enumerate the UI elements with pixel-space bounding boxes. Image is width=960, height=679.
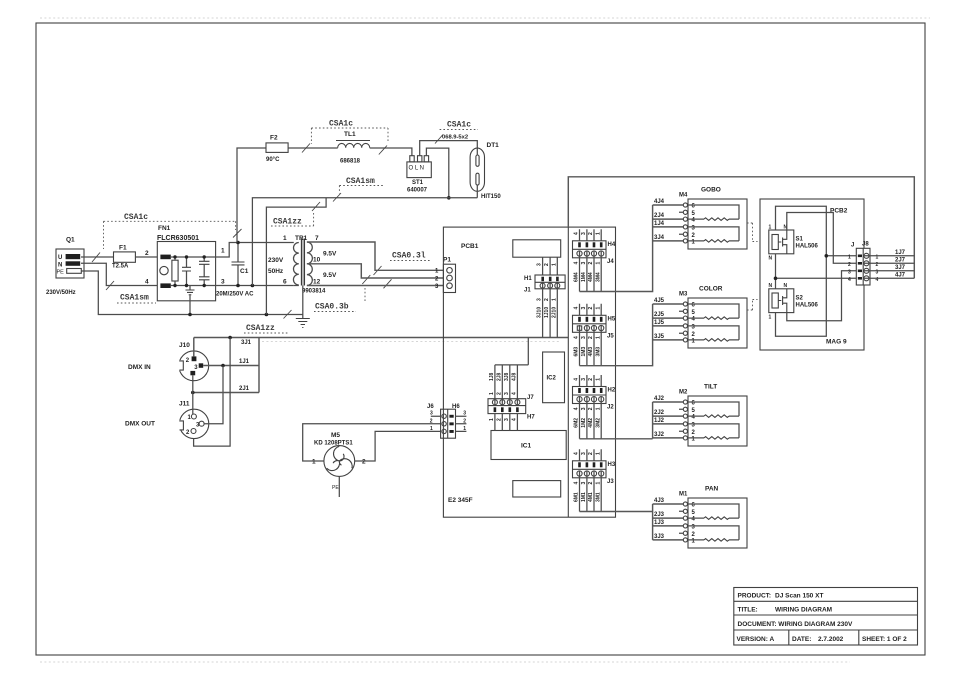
wire net 2J1 (193, 392, 260, 394)
fan motor M5 (312, 432, 366, 476)
svg-text:F2: F2 (270, 135, 278, 142)
svg-text:230V: 230V (268, 257, 284, 264)
svg-text:CSA0.3b: CSA0.3b (315, 303, 349, 312)
svg-text:J8: J8 (862, 242, 869, 248)
junction dots on ground rail (265, 313, 269, 317)
svg-text:C1: C1 (240, 268, 249, 275)
svg-text:6M3: 6M3 (574, 347, 580, 357)
svg-text:1: 1 (595, 307, 601, 310)
svg-text:PCB1: PCB1 (461, 243, 479, 250)
svg-text:1: 1 (595, 336, 601, 339)
svg-text:1J8: 1J8 (489, 372, 495, 381)
svg-text:3: 3 (581, 232, 587, 235)
svg-text:KD 1208PTS1: KD 1208PTS1 (314, 441, 353, 447)
svg-text:FN1: FN1 (158, 225, 171, 232)
svg-text:2J10: 2J10 (551, 307, 557, 318)
svg-text:M5: M5 (331, 432, 340, 439)
CSA1sm label mid (333, 177, 384, 202)
svg-text:1: 1 (283, 235, 287, 242)
svg-text:1: 1 (595, 232, 601, 235)
svg-text:3M3: 3M3 (595, 347, 601, 357)
svg-text:3J8: 3J8 (504, 372, 510, 381)
svg-text:1M4: 1M4 (581, 272, 587, 282)
FN1 junction dots (173, 255, 176, 258)
svg-text:H1: H1 (524, 276, 532, 282)
svg-text:J6: J6 (427, 404, 434, 410)
CSA1sm label bottom left (106, 281, 156, 303)
wire ST1 L up to DT1 top (420, 141, 478, 156)
svg-text:3M2: 3M2 (595, 418, 601, 428)
svg-text:1J10: 1J10 (544, 307, 550, 318)
svg-text:1: 1 (595, 262, 601, 265)
svg-text:2.7.2002: 2.7.2002 (818, 636, 844, 643)
svg-text:PCB2: PCB2 (830, 208, 848, 215)
svg-text:4J2: 4J2 (654, 396, 665, 402)
svg-text:CSA1zz: CSA1zz (246, 324, 275, 333)
svg-text:3: 3 (504, 392, 510, 395)
connector H1 J1 (524, 257, 565, 337)
svg-text:N: N (784, 283, 788, 289)
svg-text:H5: H5 (608, 317, 616, 323)
svg-text:TILT: TILT (704, 384, 717, 391)
FN1 ground symbol (189, 286, 191, 291)
wire TR1 ground (302, 286, 304, 319)
svg-text:2J1: 2J1 (239, 386, 250, 392)
wire J10 pin1 to J11 pin1 (192, 375, 194, 414)
svg-text:SHEET: 1 OF 2: SHEET: 1 OF 2 (862, 636, 907, 643)
svg-text:PE: PE (332, 485, 339, 491)
connector H2 J2 (573, 375, 616, 439)
svg-text:2: 2 (588, 378, 594, 381)
svg-text:9.5V: 9.5V (323, 272, 337, 279)
svg-text:50Hz: 50Hz (268, 268, 284, 275)
CSA1zz label upper (271, 202, 320, 227)
svg-text:CSA1c: CSA1c (447, 121, 471, 130)
svg-text:2J7: 2J7 (895, 257, 906, 263)
svg-text:J11: J11 (179, 401, 190, 408)
svg-text:2: 2 (544, 298, 550, 301)
svg-text:3: 3 (537, 263, 543, 266)
wire N: Q1 to FN1 pin4 (81, 263, 157, 285)
fuse F1 (112, 245, 135, 270)
svg-text:M1: M1 (679, 492, 688, 498)
wire TR1 pin10 to P1 pin2 (307, 264, 446, 278)
svg-text:2: 2 (588, 307, 594, 310)
svg-text:9.5V: 9.5V (323, 251, 337, 258)
svg-text:3: 3 (581, 378, 587, 381)
svg-text:3J5: 3J5 (654, 334, 665, 340)
wire net 4J7 (864, 277, 915, 279)
svg-text:COLOR: COLOR (699, 286, 723, 293)
svg-text:1: 1 (769, 315, 772, 321)
svg-text:3: 3 (504, 418, 510, 421)
svg-text:1: 1 (489, 392, 495, 395)
svg-text:2J5: 2J5 (654, 312, 665, 318)
svg-text:3J3: 3J3 (654, 534, 665, 540)
svg-text:M4: M4 (679, 193, 688, 199)
svg-text:2J3: 2J3 (654, 512, 665, 518)
svg-text:J: J (851, 243, 854, 249)
svg-text:3: 3 (581, 407, 587, 410)
wire ST1 N to lamp return (426, 148, 448, 198)
wire J8 pin3 from S2 (787, 271, 857, 321)
svg-text:4: 4 (848, 277, 851, 283)
svg-text:3M4: 3M4 (595, 272, 601, 282)
wire PE: Q1 down to ground rail (81, 271, 303, 315)
svg-text:N: N (769, 256, 773, 262)
svg-text:1: 1 (595, 407, 601, 410)
svg-text:2: 2 (588, 232, 594, 235)
svg-text:2: 2 (463, 418, 466, 424)
svg-text:1: 1 (489, 418, 495, 421)
svg-text:2: 2 (848, 262, 851, 268)
svg-text:3: 3 (430, 411, 433, 417)
wire F1 to FN1 pin2 (135, 256, 157, 258)
svg-text:1J2: 1J2 (654, 418, 665, 424)
svg-text:1J1: 1J1 (239, 359, 250, 365)
svg-text:12: 12 (313, 279, 321, 286)
svg-text:GOBO: GOBO (701, 187, 721, 194)
CSA1c label over igniter (435, 121, 478, 144)
IC2 (543, 352, 565, 403)
CSA0.3b label (314, 275, 392, 312)
svg-text:4: 4 (145, 279, 149, 286)
wire feeder J4 to GOBO (580, 205, 684, 292)
FN1 inductor top (160, 255, 170, 260)
svg-text:TL1: TL1 (344, 131, 356, 138)
fuse F2 (266, 135, 288, 164)
wire return-to-PE link (266, 198, 326, 315)
svg-text:4: 4 (574, 232, 580, 235)
svg-text:FLCR630501: FLCR630501 (157, 235, 199, 242)
FN1 capacitor X (186, 257, 188, 286)
motor M1 PAN (654, 486, 747, 549)
wire lamp return to neutral rail (252, 198, 477, 286)
svg-text:P1: P1 (443, 257, 451, 264)
svg-text:230V/50Hz: 230V/50Hz (46, 290, 76, 296)
svg-text:WIRING DIAGRAM: WIRING DIAGRAM (775, 607, 832, 614)
sensor S2 (769, 283, 819, 321)
svg-text:IC1: IC1 (521, 443, 532, 450)
FN1 internal bottom wire (171, 285, 216, 287)
wire TR1 pin7 to P1 pin1 (307, 242, 446, 270)
pcb1 top inner rect (513, 240, 561, 257)
svg-text:2J4: 2J4 (654, 213, 665, 219)
motor M4 GOBO (654, 187, 747, 250)
svg-text:T2.5A: T2.5A (112, 264, 129, 270)
svg-text:E2 345F: E2 345F (448, 497, 473, 504)
dashed link COLOR to S2 (747, 300, 758, 311)
FN1 resistor (172, 260, 178, 281)
svg-text:3: 3 (581, 482, 587, 485)
FN1 inductor bottom (160, 283, 170, 288)
svg-text:3J7: 3J7 (895, 265, 906, 271)
svg-text:6M4: 6M4 (574, 272, 580, 282)
svg-text:10: 10 (313, 257, 321, 264)
svg-text:6M2: 6M2 (574, 418, 580, 428)
connector H5 J5 (573, 304, 616, 366)
svg-text:3J4: 3J4 (654, 235, 665, 241)
wire F2 to TL1 (288, 147, 338, 149)
svg-text:2: 2 (496, 392, 502, 395)
wire feeder J2 to TILT (580, 402, 684, 439)
svg-text:H7: H7 (527, 415, 535, 421)
wire J7 bus loop top (568, 177, 914, 278)
svg-text:HIT150: HIT150 (481, 194, 501, 200)
wire feeder J5 to COLOR (580, 304, 684, 366)
svg-text:2: 2 (145, 250, 149, 257)
wire M5 pin2 to J6 (355, 431, 441, 461)
svg-text:4M4: 4M4 (588, 272, 594, 282)
wire S1 to S2 link (775, 254, 777, 289)
svg-text:1J5: 1J5 (654, 320, 665, 326)
svg-text:90°C: 90°C (266, 157, 280, 163)
svg-text:3J10: 3J10 (537, 307, 543, 318)
svg-text:IC2: IC2 (547, 376, 557, 382)
svg-text:H2: H2 (608, 388, 616, 394)
svg-text:20M/250V AC: 20M/250V AC (216, 292, 254, 298)
pcb1 bottom inner rect (513, 481, 561, 497)
connector H3 J3 (573, 449, 616, 511)
svg-text:4: 4 (574, 407, 580, 410)
junction dot lamp return on neutral rail (251, 284, 255, 288)
svg-text:J4: J4 (607, 259, 614, 265)
FN1 choke circle (160, 266, 168, 274)
wire M5 pe stub (338, 476, 340, 497)
svg-text:640007: 640007 (407, 188, 428, 194)
svg-text:H3: H3 (608, 462, 616, 468)
svg-text:J1: J1 (524, 288, 531, 294)
wire FN1 pin3 neutral rail to TR1 pin6 (216, 285, 294, 287)
svg-text:686818: 686818 (340, 159, 361, 165)
svg-text:J7: J7 (527, 395, 534, 401)
ground symbol TR1 (296, 319, 310, 328)
inductor TL1 (336, 131, 370, 165)
wire U: Q1 to F1 (81, 256, 114, 258)
svg-text:J5: J5 (607, 334, 614, 340)
CSA1zz label lower (244, 310, 292, 333)
svg-text:4: 4 (574, 452, 580, 455)
svg-text:N: N (58, 262, 62, 268)
svg-text:PE: PE (57, 270, 65, 276)
svg-text:1: 1 (463, 426, 466, 432)
svg-text:PRODUCT:: PRODUCT: (738, 593, 772, 600)
wire net 1J7 (864, 255, 915, 257)
svg-text:6: 6 (283, 279, 287, 286)
svg-text:N: N (769, 283, 773, 289)
sensor S1 (769, 225, 819, 262)
svg-text:3: 3 (581, 452, 587, 455)
svg-text:1: 1 (595, 482, 601, 485)
wire J11 pin2 loop (194, 338, 231, 447)
svg-text:1: 1 (769, 225, 772, 231)
wire TR1 pin6 (294, 285, 299, 287)
svg-text:CSA1c: CSA1c (329, 120, 353, 129)
connector Q1 (46, 237, 84, 297)
svg-text:4: 4 (574, 336, 580, 339)
svg-text:3: 3 (463, 411, 466, 417)
motor M3 COLOR (654, 286, 747, 349)
svg-text:S1: S1 (796, 237, 804, 243)
svg-text:1: 1 (312, 459, 316, 466)
svg-text:DATE:: DATE: (792, 636, 811, 643)
svg-text:2: 2 (588, 407, 594, 410)
svg-text:1: 1 (551, 298, 557, 301)
svg-text:2: 2 (588, 262, 594, 265)
wire net 3J1 (194, 338, 569, 393)
svg-text:S2: S2 (796, 296, 804, 302)
wire J10 pin3 to J11 pin3 (204, 366, 223, 424)
motor M2 TILT (654, 384, 747, 447)
svg-text:4J4: 4J4 (654, 199, 665, 205)
svg-text:4M2: 4M2 (588, 418, 594, 428)
wire net 3J7 (864, 270, 915, 272)
svg-text:4M3: 4M3 (588, 347, 594, 357)
connector J6 H6 (427, 404, 466, 438)
svg-text:1M1: 1M1 (581, 492, 587, 502)
dashed link GOBO to S1 (747, 223, 758, 242)
svg-text:HAL506: HAL506 (796, 244, 819, 250)
svg-text:CSA0.3l: CSA0.3l (392, 252, 426, 261)
wire net 1J1 (203, 365, 259, 367)
CSA1c label left (92, 213, 242, 262)
svg-text:4: 4 (574, 307, 580, 310)
svg-text:DJ Scan 150 XT: DJ Scan 150 XT (775, 593, 823, 600)
lamp socket ST1 (407, 156, 431, 194)
svg-text:O L N: O L N (409, 166, 424, 172)
svg-text:2: 2 (430, 418, 433, 424)
svg-text:H6: H6 (452, 404, 460, 410)
svg-text:J2: J2 (607, 405, 614, 411)
svg-text:1J7: 1J7 (895, 250, 906, 256)
svg-text:M2: M2 (679, 390, 688, 396)
wire S1 loop (776, 206, 827, 336)
wire FN1 ground to rail (189, 296, 191, 315)
svg-text:F1: F1 (119, 245, 127, 252)
svg-text:HAL506: HAL506 (796, 303, 819, 309)
wire TR1 pin12 to P1 pin3 (307, 285, 446, 287)
svg-text:PAN: PAN (705, 486, 719, 493)
svg-text:VERSION: A: VERSION: A (737, 636, 775, 643)
connector J11 DMX OUT (177, 401, 209, 439)
svg-text:TITLE:: TITLE: (738, 607, 758, 614)
svg-text:1: 1 (848, 254, 851, 260)
svg-text:9903814: 9903814 (302, 289, 326, 295)
svg-text:2: 2 (544, 263, 550, 266)
lamp DT1 (470, 142, 501, 200)
svg-text:3: 3 (221, 279, 225, 286)
svg-text:TR1: TR1 (295, 235, 308, 242)
svg-text:1M2: 1M2 (581, 418, 587, 428)
svg-text:1: 1 (551, 263, 557, 266)
CSA1c label over TL1 (302, 120, 388, 155)
svg-text:3: 3 (581, 307, 587, 310)
svg-text:CSA1c: CSA1c (124, 213, 148, 222)
svg-text:U: U (58, 255, 62, 261)
svg-text:2: 2 (362, 459, 366, 466)
svg-text:1: 1 (595, 452, 601, 455)
svg-text:2J8: 2J8 (496, 372, 502, 381)
svg-text:068.9-5x2: 068.9-5x2 (442, 135, 468, 141)
svg-text:1M3: 1M3 (581, 347, 587, 357)
connector J7 H7 (488, 338, 535, 431)
svg-text:1: 1 (221, 248, 225, 255)
svg-text:6M1: 6M1 (574, 492, 580, 502)
wire FN1 pin1 up to primary feed (216, 243, 294, 258)
svg-text:4J7: 4J7 (895, 272, 906, 278)
capacitor C1 (232, 241, 249, 288)
svg-text:1J4: 1J4 (654, 221, 665, 227)
filter FN1 (157, 225, 216, 301)
svg-text:3J2: 3J2 (654, 432, 665, 438)
svg-text:2J2: 2J2 (654, 410, 665, 416)
svg-text:M3: M3 (679, 292, 688, 298)
svg-text:3: 3 (537, 298, 543, 301)
FN1 internal top wire (171, 256, 216, 258)
svg-text:3: 3 (848, 269, 851, 275)
connector J10 DMX IN (177, 342, 209, 381)
svg-text:4J5: 4J5 (654, 298, 665, 304)
svg-text:2: 2 (588, 482, 594, 485)
IC1 (491, 431, 566, 460)
svg-text:3: 3 (581, 262, 587, 265)
svg-text:4: 4 (574, 262, 580, 265)
svg-text:4: 4 (512, 418, 518, 421)
svg-text:3M1: 3M1 (595, 492, 601, 502)
connector H4 J4 (573, 229, 616, 291)
svg-text:DMX IN: DMX IN (128, 364, 151, 371)
svg-text:2: 2 (588, 452, 594, 455)
wire M5 pin1 to J6 (303, 424, 441, 461)
svg-text:4: 4 (574, 482, 580, 485)
wire net 2J7 (864, 262, 915, 264)
svg-text:7: 7 (315, 235, 319, 242)
svg-text:4: 4 (512, 392, 518, 395)
svg-text:4J8: 4J8 (512, 372, 518, 381)
board PCB2 (760, 199, 864, 350)
svg-text:MAG 9: MAG 9 (826, 339, 847, 346)
wire DT1 bottom to return (476, 148, 478, 198)
svg-text:ST1: ST1 (412, 180, 424, 186)
board PCB1 outline (443, 227, 615, 517)
CSA0.3l label (374, 252, 431, 276)
svg-text:3J1: 3J1 (241, 340, 252, 346)
svg-text:2: 2 (496, 418, 502, 421)
wire feeder J3 to PAN (580, 504, 684, 540)
wire J8 pin2 from S1 (787, 213, 857, 264)
transformer TR1 (268, 235, 337, 295)
svg-text:J3: J3 (607, 479, 614, 485)
wire J8 pin4 from sensor rail (776, 277, 857, 279)
svg-text:2: 2 (588, 336, 594, 339)
wire TL1 to ST1 pin O (370, 148, 412, 156)
svg-text:3: 3 (581, 336, 587, 339)
svg-text:Q1: Q1 (66, 237, 75, 244)
svg-text:DMX OUT: DMX OUT (125, 421, 155, 428)
svg-text:DT1: DT1 (487, 142, 500, 149)
svg-text:CSA1zz: CSA1zz (273, 218, 302, 227)
svg-text:DOCUMENT: WIRING DIAGRAM 230V: DOCUMENT: WIRING DIAGRAM 230V (738, 621, 854, 628)
wire J8 pin1 (826, 255, 856, 257)
connector J8 (848, 242, 879, 286)
FN1 capacitors Y pair (203, 257, 205, 286)
svg-text:1: 1 (430, 426, 433, 432)
svg-text:J10: J10 (179, 342, 190, 349)
svg-text:4M1: 4M1 (588, 492, 594, 502)
connector P1 (435, 257, 456, 293)
wire F2 feed vertical (237, 148, 266, 243)
svg-text:4: 4 (574, 378, 580, 381)
